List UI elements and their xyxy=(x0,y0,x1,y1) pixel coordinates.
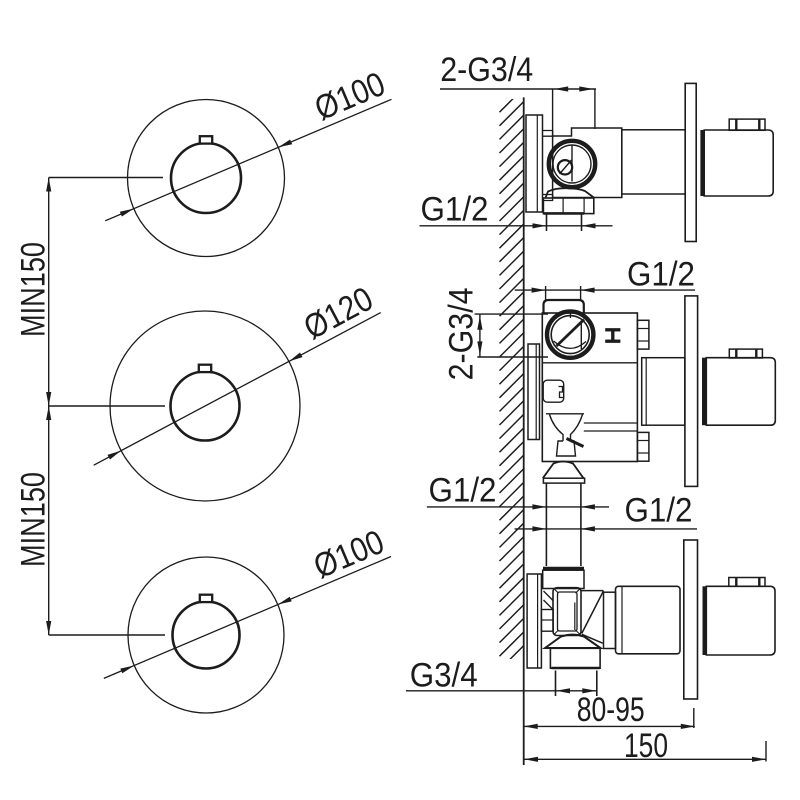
wall line xyxy=(523,97,525,765)
middle valve knob inner right xyxy=(755,349,757,358)
top trim leader arrow upper xyxy=(278,140,292,148)
wall hatching xyxy=(500,88,524,670)
MIN150 arrow top xyxy=(46,178,51,192)
G3/4 leader line xyxy=(406,690,557,692)
middle trim leader arrow upper xyxy=(289,353,303,362)
2-G3/4 side arrow up xyxy=(477,316,482,330)
svg-text:G1/2: G1/2 xyxy=(625,492,693,530)
top valve knob inner left xyxy=(735,119,737,130)
middle valve bracket hook xyxy=(559,387,564,398)
150 arrow right xyxy=(752,757,766,762)
svg-text:80-95: 80-95 xyxy=(577,691,645,729)
bottom trim handle index tab xyxy=(200,595,212,602)
top valve knob xyxy=(729,119,765,130)
svg-text:G1/2: G1/2 xyxy=(429,472,497,510)
G3/4 arrow left xyxy=(556,688,570,693)
bottom valve upper box xyxy=(543,570,584,588)
middle valve top seam tick xyxy=(569,311,571,319)
G1/2 right arrow b xyxy=(581,526,595,531)
svg-text:MIN150: MIN150 xyxy=(15,242,53,337)
top valve vertical chord xyxy=(571,146,573,182)
bottom valve taper diagonal a xyxy=(582,591,604,634)
bottom valve outlet stub right xyxy=(596,671,598,697)
top valve outlet stub right xyxy=(581,215,583,232)
bottom valve knob inner left xyxy=(735,578,737,587)
bottom trim leader arrow upper xyxy=(278,597,292,605)
middle valve bottom arc xyxy=(554,341,587,348)
svg-text:2-G3/4: 2-G3/4 xyxy=(443,287,481,380)
bottom trim escutcheon outer circle xyxy=(128,557,284,713)
middle valve handle xyxy=(706,358,775,426)
svg-text:G1/2: G1/2 xyxy=(421,191,489,229)
svg-text:2-G3/4: 2-G3/4 xyxy=(440,51,533,89)
bottom valve top collar xyxy=(543,567,584,570)
middle valve funnel left side xyxy=(550,415,564,442)
middle valve wall plate inner line xyxy=(535,344,537,440)
top valve wall plate xyxy=(526,115,543,212)
middle valve funnel outlet line b xyxy=(584,430,638,432)
middle valve ring xyxy=(547,311,593,357)
80-95 extension tick xyxy=(693,708,695,728)
bottom valve corner tick d xyxy=(576,630,580,634)
middle valve escutcheon plate xyxy=(685,296,698,487)
G1/2 right arrow a xyxy=(532,526,546,531)
middle valve funnel right side xyxy=(571,415,583,442)
80-95 dimension line xyxy=(524,725,695,727)
top valve wall plate inner line xyxy=(536,115,538,212)
2-G3/4 top extension right xyxy=(594,89,596,129)
top valve body box xyxy=(553,128,622,198)
MIN150 extension line middle xyxy=(49,405,165,407)
MIN150 arrow mid-down xyxy=(46,392,51,406)
middle valve bottom band xyxy=(543,478,584,483)
top trim handle index tab xyxy=(200,136,212,143)
middle trim leader arrow lower xyxy=(108,451,122,460)
bottom valve left block xyxy=(541,610,553,632)
bottom valve dome xyxy=(545,635,601,648)
middle valve bracket xyxy=(543,380,564,402)
middle valve funnel outlet line a xyxy=(584,422,638,424)
middle valve cylinder xyxy=(642,358,685,426)
MIN150 dimension line xyxy=(48,178,50,636)
top valve handle xyxy=(704,130,773,196)
bottom valve wall plate inner line xyxy=(537,574,539,668)
middle valve funnel wedge xyxy=(567,439,584,447)
bottom valve window vline xyxy=(574,603,576,631)
bottom valve corner tick b xyxy=(576,589,580,593)
bottom valve window outer xyxy=(553,588,581,636)
middle trim diameter leader line xyxy=(94,313,381,466)
middle valve upper nipple xyxy=(637,320,649,349)
80-95 arrow left xyxy=(524,724,538,729)
150 extension tick xyxy=(765,741,767,762)
middle valve lower nipple line a xyxy=(637,440,649,442)
bottom valve lower collar xyxy=(550,648,600,668)
150 dimension line xyxy=(524,758,766,760)
middle valve inner circle xyxy=(551,316,589,354)
top valve outlet stub left xyxy=(546,215,548,232)
middle valve body xyxy=(542,313,637,462)
middle valve upper nipple line a xyxy=(637,328,649,330)
middle valve lower nipple line b xyxy=(637,452,649,454)
middle valve funnel foot xyxy=(557,441,576,456)
bottom valve cartridge xyxy=(616,586,681,654)
2-G3/4 side arrow down xyxy=(477,341,482,355)
svg-text:G3/4: G3/4 xyxy=(410,657,478,695)
2-G3/4 top dimension line xyxy=(440,88,596,90)
G1/2 top arrow right xyxy=(582,223,596,228)
top valve upper step xyxy=(543,131,553,137)
top valve small slash xyxy=(560,160,572,174)
bottom valve outlet stub left xyxy=(555,671,557,697)
top valve small circle xyxy=(558,160,572,174)
middle valve wall plate xyxy=(528,344,540,440)
bottom valve left hatch b xyxy=(544,600,554,610)
middle valve body divider xyxy=(542,362,637,364)
2-G3/4 side dimension line xyxy=(479,314,481,357)
2-G3/4 side extension bottom xyxy=(477,356,548,358)
G1/2 left dimension line xyxy=(427,506,609,508)
bottom valve knob inner right xyxy=(758,578,760,587)
top valve escutcheon plate xyxy=(685,83,696,241)
middle valve H mark xyxy=(605,328,620,331)
G1/2 top dimension line xyxy=(420,225,613,227)
bottom valve stem xyxy=(604,592,616,648)
G1/2 right dimension line xyxy=(515,528,697,530)
middle valve handle hub xyxy=(702,358,706,426)
middle valve knob inner left xyxy=(735,349,737,358)
top valve collar thick bottom xyxy=(543,212,584,215)
top valve collar inner line left xyxy=(562,198,564,214)
middle valve lower nipple xyxy=(637,432,649,461)
80-95 arrow right xyxy=(681,724,695,729)
bottom valve left hatch a xyxy=(544,591,554,601)
G1/2 left arrow a xyxy=(532,504,546,509)
middle trim handle index tab xyxy=(199,365,211,372)
150 arrow left xyxy=(524,757,538,762)
top valve inner circle xyxy=(553,145,591,183)
G3/4 arrow connect line xyxy=(556,690,596,692)
G1/2 top arrow left xyxy=(533,223,547,228)
middle valve vertical chord xyxy=(580,321,582,350)
top valve collar inner line right xyxy=(583,198,585,214)
bottom valve corner tick c xyxy=(555,630,559,634)
middle valve knob xyxy=(729,349,762,358)
bottom valve handle xyxy=(706,586,775,655)
top valve lower step xyxy=(543,195,553,201)
connecting pipe right xyxy=(580,483,582,566)
MIN150 arrow bottom xyxy=(46,621,51,635)
bottom valve left block line xyxy=(541,619,553,621)
top valve cartridge box xyxy=(622,130,685,194)
svg-text:G1/2: G1/2 xyxy=(627,255,695,293)
middle valve slash xyxy=(557,320,585,347)
2-G3/4 top extension left xyxy=(552,89,554,137)
top trim escutcheon outer circle xyxy=(128,100,285,257)
middle trim handle inner circle xyxy=(171,372,240,441)
bottom valve collar thick bottom xyxy=(552,667,600,670)
2-G3/4 top arrow right xyxy=(579,86,593,91)
middle valve ext tick left xyxy=(545,286,547,300)
middle valve upper nipple line b xyxy=(637,340,649,342)
middle valve bottom dome xyxy=(543,462,584,479)
middle valve top cap xyxy=(544,300,584,313)
bottom valve escutcheon plate xyxy=(684,540,698,699)
2-G3/4 side extension top xyxy=(475,313,548,315)
top valve knob inner right xyxy=(758,119,760,130)
bottom valve taper diagonal b xyxy=(582,634,603,643)
top trim leader arrow lower xyxy=(120,209,134,217)
G1/2 left arrow b xyxy=(581,504,595,509)
middle trim escutcheon outer circle xyxy=(110,311,300,501)
top trim diameter leader line xyxy=(105,99,391,221)
MIN150 arrow mid-up xyxy=(46,406,51,420)
bottom valve handle hub xyxy=(703,586,707,655)
bottom valve knob xyxy=(729,578,765,587)
middle valve ext tick right xyxy=(580,286,582,300)
bottom valve window inner xyxy=(558,592,578,631)
bottom valve corner tick a xyxy=(555,589,559,593)
bottom valve cartridge inner line xyxy=(621,586,623,654)
connecting pipe left xyxy=(545,483,547,566)
G3/4 arrow right xyxy=(582,688,596,693)
top valve ring xyxy=(549,141,595,187)
2-G3/4 top arrow left xyxy=(554,86,568,91)
bottom valve wall plate xyxy=(527,574,541,668)
middle valve cylinder inner line xyxy=(645,358,647,426)
top valve dome xyxy=(546,188,594,197)
MIN150 extension line top xyxy=(49,177,163,179)
MIN150 extension line bottom xyxy=(49,634,165,636)
bottom trim diameter leader line xyxy=(104,557,391,679)
svg-text:MIN150: MIN150 xyxy=(15,472,53,567)
bottom trim handle inner circle xyxy=(173,602,240,669)
top valve collar xyxy=(543,198,593,214)
middle valve G1/2 arrow right xyxy=(581,288,595,293)
top trim handle inner circle xyxy=(171,143,241,213)
bottom valve taper top line xyxy=(581,590,604,592)
top valve handle hub xyxy=(700,130,704,196)
middle valve G1/2 dimension line xyxy=(515,289,695,291)
bottom trim leader arrow lower xyxy=(120,666,134,674)
middle valve funnel top line xyxy=(546,413,584,415)
middle valve G1/2 arrow left xyxy=(532,288,546,293)
